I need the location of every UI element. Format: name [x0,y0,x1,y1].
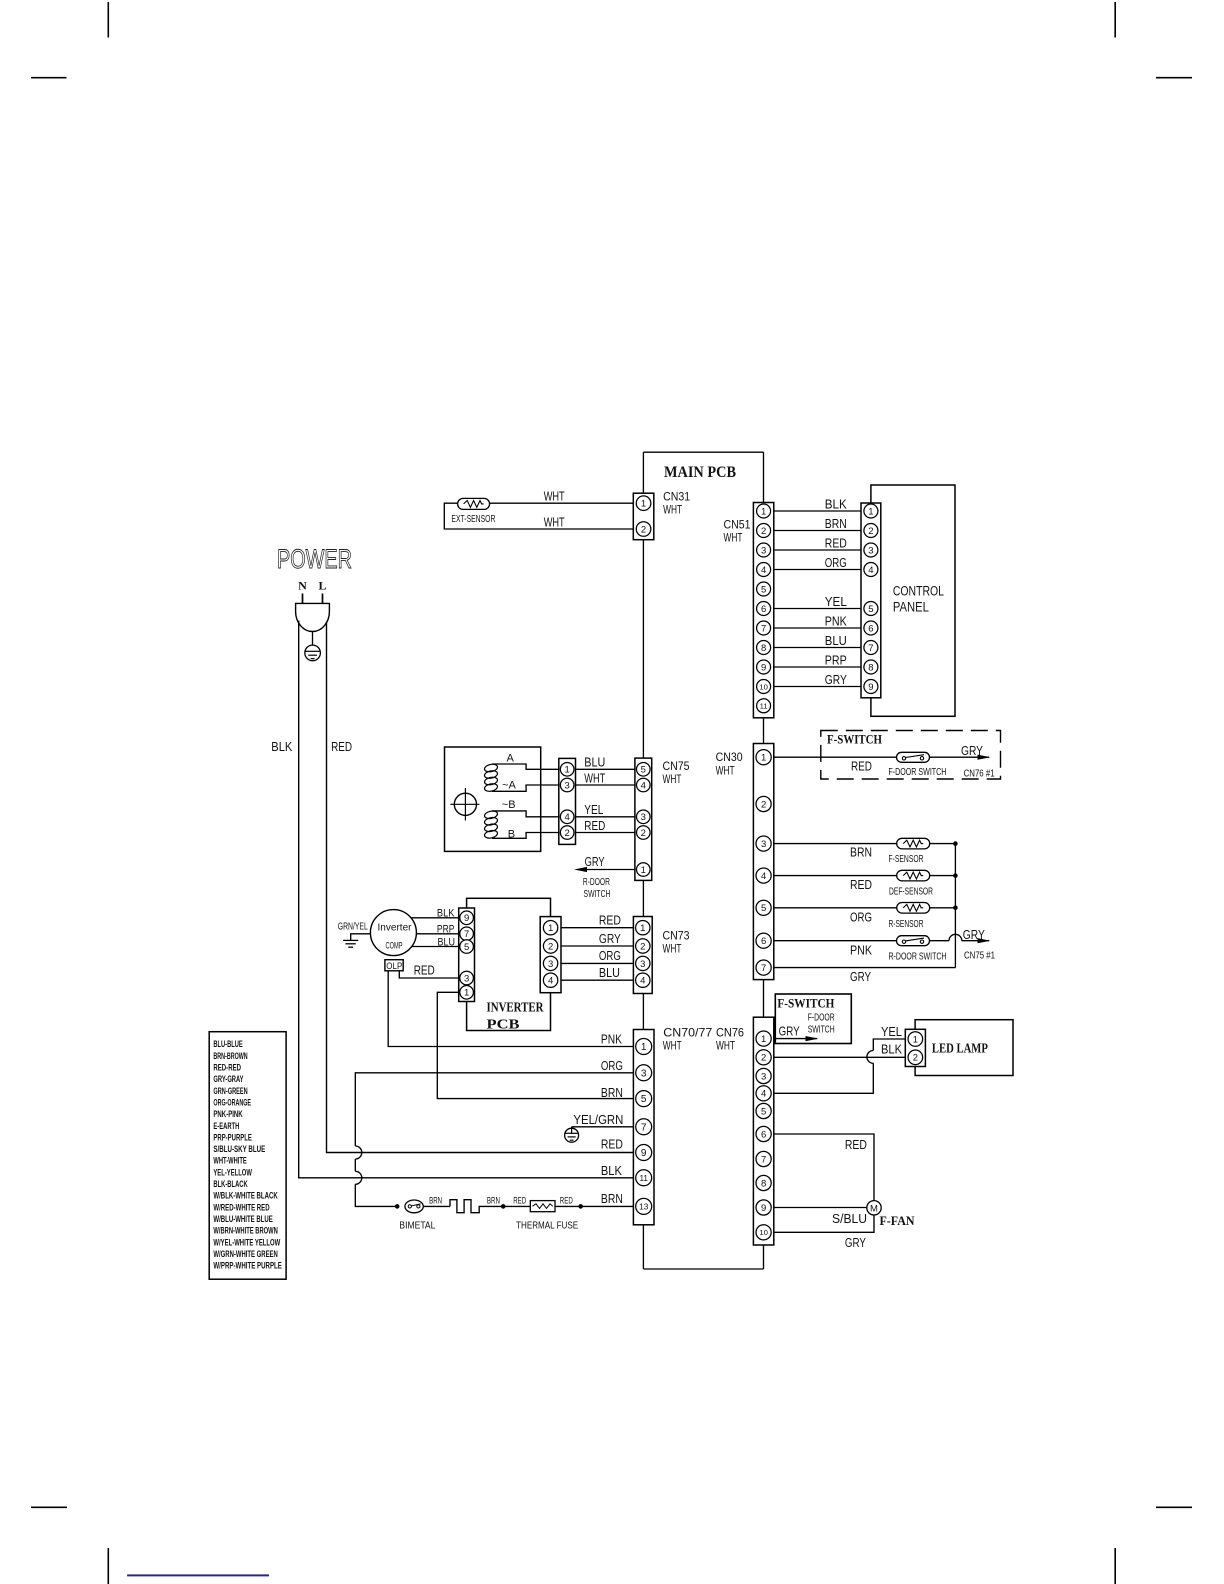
svg-text:R-SENSOR: R-SENSOR [889,919,924,930]
svg-text:2: 2 [641,524,646,535]
crop mark bottom-right vertical [1114,1548,1116,1584]
label POWER [277,544,352,574]
svg-text:RED: RED [845,1138,867,1152]
svg-text:RED: RED [560,1196,573,1207]
label CN75 WHT [663,772,682,786]
svg-text:PRP: PRP [825,654,847,668]
svg-text:ORG: ORG [601,1059,623,1073]
svg-text:F-DOOR SWITCH: F-DOOR SWITCH [888,767,946,778]
svg-text:THERMAL FUSE: THERMAL FUSE [516,1221,578,1232]
wire BLU compressor to inverter pin5 [412,946,459,948]
svg-text:YEL: YEL [825,595,847,609]
wire GRY CN76 pin10 to fan motor [774,1215,874,1233]
svg-text:7: 7 [641,1122,647,1133]
svg-text:BLK: BLK [437,908,455,920]
svg-text:1: 1 [761,753,766,764]
svg-text:BRN: BRN [429,1196,442,1207]
svg-text:F-SENSOR: F-SENSOR [889,854,924,865]
svg-text:GRN/YEL: GRN/YEL [338,922,368,933]
label EXT-SENSOR [451,513,495,525]
svg-text:PNK: PNK [825,615,848,629]
svg-text:11: 11 [639,1174,648,1183]
overload protector (square wave) [450,1200,503,1213]
wire YEL CN76 pin4 to LED pin1 (hop over BLK) [774,1039,906,1093]
svg-text:2: 2 [548,941,553,952]
resistor F-SENSOR [897,838,930,849]
svg-text:5: 5 [464,942,469,953]
power plug [296,594,330,632]
crop mark top-left vertical [107,2,109,38]
label RED [414,964,435,978]
svg-text:PNK: PNK [850,944,873,958]
svg-text:5: 5 [641,765,646,776]
label CN70/77 [663,1026,712,1040]
svg-text:5: 5 [641,1094,647,1105]
label BLU [599,966,620,980]
label RED [845,1138,867,1152]
svg-text:1: 1 [868,506,873,517]
svg-text:F-DOOR: F-DOOR [808,1012,835,1023]
svg-text:1: 1 [761,506,766,517]
label L (live pin) [318,579,326,593]
CONTROL PANEL box [871,485,955,716]
svg-text:3: 3 [565,780,570,791]
svg-text:~B: ~B [502,799,516,811]
svg-text:9: 9 [464,913,469,924]
svg-text:N: N [298,579,307,593]
MAIN PCB box right edge segments [763,452,765,1269]
svg-text:4: 4 [565,812,570,823]
label PRP [437,923,455,935]
label INVERTER PCB [487,1000,544,1032]
svg-text:OLP: OLP [386,961,402,971]
svg-text:W/YEL-WHITE YELLOW: W/YEL-WHITE YELLOW [213,1237,280,1247]
wire WHT ext-sensor top (to CN31 pin1) [490,502,634,504]
connector LED lamp (2-pin) [905,1029,925,1066]
svg-text:7: 7 [761,1154,766,1165]
svg-text:4: 4 [868,565,873,576]
INVERTER PCB box [467,898,551,1030]
wire S/BLU CN76 pin9 to fan motor [774,1207,867,1209]
svg-text:1: 1 [640,923,645,934]
wire RED inverter to CN73 pin1 [561,927,633,929]
label BLK [271,740,293,754]
label GRY [585,855,605,869]
svg-text:LED LAMP: LED LAMP [932,1041,988,1056]
wire coil B bottom to pin2 [492,833,559,839]
label CN31 WHT [663,503,682,517]
label R-DOOR SWITCH (two lines) [583,877,611,900]
label CN30 WHT [716,764,735,778]
svg-text:GRY: GRY [825,673,848,687]
wire RED OLP to inverter pin3 [399,971,458,978]
svg-text:A: A [507,753,515,765]
svg-text:3: 3 [641,1068,647,1079]
label BLU [438,936,456,948]
svg-text:E-EARTH: E-EARTH [213,1121,239,1131]
resistor EXT-SENSOR [458,498,490,509]
wire BLK power line (plug to CN70/77 pin11) [299,621,634,1178]
label RED [599,914,621,928]
svg-text:WHT: WHT [544,516,565,530]
svg-text:4: 4 [641,780,646,791]
wire color legend box [209,1032,286,1280]
label F-SWITCH [777,996,834,1011]
svg-text:WHT: WHT [663,772,682,786]
wire BRN to F-SENSOR (CN30 pin3) [774,843,956,845]
svg-text:GRY: GRY [963,928,986,942]
svg-text:1: 1 [641,1042,647,1053]
svg-text:BLU-BLUE: BLU-BLUE [213,1039,242,1049]
wire ORG inverter to CN73 pin3 [561,962,633,964]
crop mark bottom-right horizontal [1156,1506,1192,1508]
svg-text:YEL-YELLOW: YEL-YELLOW [213,1167,252,1177]
wire thermal fuse to CN70/77 pin13 [555,1205,633,1207]
svg-text:7: 7 [761,963,766,974]
fuse THERMAL FUSE [530,1201,555,1212]
F-SWITCH dashed box [821,731,1001,780]
svg-text:W/BRN-WHITE BROWN: W/BRN-WHITE BROWN [213,1226,277,1236]
svg-text:RED: RED [851,760,872,774]
wire color legend entries [213,1039,282,1270]
svg-text:2: 2 [761,799,766,810]
connector CN70/77 (odd pins 1-13, MAIN PCB left) [633,1030,654,1225]
wire PNK through R-DOOR SWITCH (CN30 pin6) with hop and GRY arrow [774,934,991,943]
svg-text:1: 1 [641,499,646,510]
svg-text:2: 2 [761,1053,766,1064]
svg-text:1: 1 [913,1034,918,1045]
junction node R-SENSOR bus [953,906,958,911]
svg-text:2: 2 [640,941,645,952]
MAIN PCB box top edge [643,451,763,453]
svg-text:4: 4 [761,565,766,576]
label S/BLU [832,1212,867,1226]
svg-text:1: 1 [464,988,469,999]
footer blue rule [127,1574,269,1576]
resistor R-SENSOR [897,903,930,914]
coil A winding [484,763,498,792]
svg-text:BLU: BLU [584,756,605,770]
svg-text:~A: ~A [502,780,516,792]
svg-text:WHT: WHT [716,764,735,778]
label BLK [437,908,455,920]
svg-text:7: 7 [464,929,469,940]
switch F-DOOR SWITCH [897,752,930,762]
svg-text:PRP: PRP [437,923,455,935]
label B [508,828,515,840]
svg-text:RED: RED [513,1196,526,1207]
wire ORG CN70/77 pin3 to bimetal chain (with hops over RED and BLK) [355,1073,633,1207]
svg-text:4: 4 [761,1089,766,1100]
svg-text:PRP-PURPLE: PRP-PURPLE [213,1132,252,1142]
wire WHT ext-sensor bottom (to CN31 pin2) [444,503,633,529]
label RED [513,1196,526,1207]
label GRY [961,744,984,758]
F-SWITCH solid box [775,994,851,1044]
connector inverter PCB right (pins 1-4) [540,917,561,993]
svg-text:5: 5 [761,903,766,914]
svg-text:3: 3 [868,545,873,556]
svg-text:6: 6 [868,623,873,634]
label LED LAMP [932,1041,988,1056]
svg-text:1: 1 [641,865,646,876]
svg-text:7: 7 [868,643,873,654]
wire WHT damper pin3 to CN75 pin4 [576,784,635,786]
svg-text:W/PRP-WHITE PURPLE: W/PRP-WHITE PURPLE [213,1261,282,1271]
svg-text:BRN-BROWN: BRN-BROWN [213,1051,247,1061]
svg-text:R-DOOR: R-DOOR [583,877,610,888]
svg-text:3: 3 [761,545,766,556]
label CN51 [724,518,751,532]
svg-text:W/RED-WHITE RED: W/RED-WHITE RED [213,1202,270,1212]
svg-text:CN75 #1: CN75 #1 [964,951,995,962]
connector damper 4-pin [559,758,576,844]
earth terminal (circle ground) [305,645,321,661]
svg-text:5: 5 [761,584,766,595]
svg-text:S/BLU: S/BLU [832,1212,867,1226]
svg-text:EXT-SENSOR: EXT-SENSOR [451,513,495,525]
svg-text:9: 9 [761,1203,766,1214]
svg-text:GRY: GRY [961,744,984,758]
wire RED CN76 pin6 to fan motor [774,1134,874,1201]
thermostat BIMETAL [405,1200,423,1213]
svg-text:MAIN PCB: MAIN PCB [664,464,736,481]
connector control panel (9-pin) [861,503,881,698]
svg-text:2: 2 [565,828,570,839]
wire BLU inverter to CN73 pin4 [561,979,633,981]
svg-text:7: 7 [761,623,766,634]
junction dot before pin13 [578,1204,583,1209]
label DEF-SENSOR [889,887,933,898]
label ~A [502,780,516,792]
wire to thermal fuse [503,1205,530,1207]
svg-text:SWITCH: SWITCH [808,1025,835,1036]
label CN76 #1 [964,769,995,780]
label CN76 WHT [716,1039,735,1053]
label WHT [584,771,605,785]
label YEL [881,1025,902,1039]
svg-text:2: 2 [641,828,646,839]
svg-text:BRN: BRN [601,1192,623,1206]
svg-text:6: 6 [761,936,766,947]
label RED [851,760,872,774]
crop mark top-left horizontal [31,77,67,79]
svg-text:RED: RED [825,537,847,551]
svg-text:F-FAN: F-FAN [880,1214,915,1228]
wire earth from compressor [351,934,371,941]
junction dot before bimetal [395,1204,400,1209]
svg-text:9: 9 [868,682,873,693]
svg-text:3: 3 [464,973,469,984]
label YEL/GRN [573,1113,623,1127]
label GRY [845,1236,867,1250]
svg-text:COMP: COMP [386,941,403,951]
label BRN [601,1192,623,1206]
label BIMETAL [399,1221,435,1232]
wire coil B top to pin4 [492,811,559,817]
svg-text:5: 5 [868,604,873,615]
wire GRY arrow from CN75 pin1 to R-DOOR SWITCH [574,867,635,872]
svg-text:Inverter: Inverter [378,923,413,934]
label CONTROL PANEL [893,584,944,615]
junction dot after overload [501,1204,506,1209]
svg-text:YEL: YEL [881,1025,902,1039]
svg-text:W/BLK-WHITE BLACK: W/BLK-WHITE BLACK [213,1191,278,1201]
svg-text:1: 1 [761,1034,766,1045]
svg-text:BRN: BRN [601,1086,623,1100]
wire YEL damper pin4 to CN75 pin3 [576,816,635,818]
svg-text:8: 8 [761,643,766,654]
motor F-FAN (M circle) [867,1201,881,1215]
svg-text:BLK: BLK [271,740,293,754]
junction node F-SENSOR bus [953,841,958,846]
wire BRN inverter pin1 to CN70/77 pin5 [437,992,633,1098]
svg-text:CN76 #1: CN76 #1 [964,769,995,780]
label WHT top [544,490,565,504]
wire RED power line (plug to CN70/77 pin9) [327,622,634,1153]
svg-text:WHT: WHT [724,531,743,545]
wire BLU damper pin1 to CN75 pin5 [576,768,635,770]
svg-text:RED: RED [599,914,621,928]
LED LAMP box [915,1020,1013,1076]
label GRN/YEL [338,922,368,933]
svg-text:RED: RED [414,964,435,978]
svg-text:ORG: ORG [599,949,621,963]
svg-text:BLK-BLACK: BLK-BLACK [213,1179,248,1189]
svg-text:INVERTER: INVERTER [487,1000,544,1015]
svg-text:6: 6 [761,1129,766,1140]
svg-text:CN70/77: CN70/77 [663,1026,712,1040]
label ORG [599,949,621,963]
svg-text:GRY: GRY [585,855,605,869]
svg-text:GRY-GRAY: GRY-GRAY [213,1074,243,1084]
crop mark bottom-left horizontal [31,1506,67,1508]
svg-text:10: 10 [759,1228,768,1237]
svg-text:9: 9 [641,1148,647,1159]
svg-text:3: 3 [761,1071,766,1082]
damper motor box [445,747,541,851]
svg-text:WHT: WHT [584,771,605,785]
MAIN PCB box bottom edge [643,1268,763,1270]
label N (neutral pin) [298,579,307,593]
svg-text:GRY: GRY [599,932,622,946]
svg-text:BLK: BLK [881,1043,903,1057]
label ORG [850,911,872,925]
label CN75 [663,759,690,773]
svg-text:CN30: CN30 [716,750,743,764]
svg-text:BLU: BLU [825,634,847,648]
label YEL [584,803,603,817]
connector CN73 (4-pin, MAIN PCB left) [633,917,652,994]
wire coil A top to pin1 [492,764,559,769]
svg-text:3: 3 [640,959,645,970]
svg-text:WHT: WHT [663,503,682,517]
connector CN75 (5-pin, MAIN PCB left) [635,758,652,880]
wire RED to DEF-SENSOR (CN30 pin4) [774,875,956,877]
label BRN [487,1196,500,1207]
svg-text:ORG-ORANGE: ORG-ORANGE [213,1097,251,1107]
compressor Inverter COMP (circle) [370,910,416,956]
svg-text:RED-RED: RED-RED [213,1063,241,1073]
label PNK [850,944,873,958]
resistor DEF-SENSOR [897,870,930,881]
protector OLP box [385,960,403,971]
wire RED damper pin2 to CN75 pin2 [576,832,635,834]
connector CN51 (11-pin, MAIN PCB right) [753,503,773,718]
svg-text:L: L [318,579,326,593]
label MAIN PCB [664,464,736,481]
label CN76 [716,1026,744,1040]
label CN75 #1 [964,951,995,962]
svg-text:BRN: BRN [487,1196,500,1207]
svg-text:9: 9 [761,662,766,673]
svg-text:PANEL: PANEL [893,599,929,614]
svg-text:R-DOOR SWITCH: R-DOOR SWITCH [889,952,947,963]
wire YEL/GRN CN70/77 pin7 to earth [572,1126,634,1128]
svg-text:4: 4 [548,976,553,987]
svg-text:CN76: CN76 [716,1026,744,1040]
svg-text:BIMETAL: BIMETAL [399,1221,435,1232]
svg-text:CN51: CN51 [724,518,751,532]
MAIN PCB box left edge segments [642,452,644,1269]
label CN73 WHT [663,942,682,956]
label CN31 [663,490,690,504]
motor symbol (circle with cross) [450,788,479,820]
crop mark top-right horizontal [1156,77,1192,79]
svg-text:F-SWITCH: F-SWITCH [827,733,882,747]
svg-text:3: 3 [548,959,553,970]
svg-text:PNK: PNK [601,1033,623,1047]
label A [507,753,515,765]
wires CN51 to control panel (BLK BRN RED ORG YEL PNK BLU PRP GRY) [774,511,861,687]
svg-text:POWER: POWER [277,544,352,574]
wire RED/GRY through F-door switch (CN30 pin1) [774,755,991,760]
svg-text:ORG: ORG [850,911,872,925]
svg-text:BLK: BLK [601,1164,623,1178]
label GRY [779,1025,801,1039]
svg-text:BRN: BRN [825,517,847,531]
svg-text:RED: RED [331,740,352,754]
label BLK [601,1164,623,1178]
svg-text:GRY: GRY [779,1025,801,1039]
svg-text:3: 3 [641,812,646,823]
svg-text:DEF-SENSOR: DEF-SENSOR [889,887,933,898]
svg-text:PCB: PCB [487,1017,520,1032]
coil B winding [484,810,498,839]
label F-DOOR SWITCH [888,767,946,778]
svg-text:GRN-GREEN: GRN-GREEN [213,1086,247,1096]
label GRY [850,970,872,984]
labels CN51-CP wire colors [825,498,848,688]
svg-text:GRY: GRY [845,1236,867,1250]
label F-SWITCH [827,733,882,747]
svg-text:1: 1 [548,923,553,934]
svg-text:PNK-PINK: PNK-PINK [213,1109,243,1119]
wire BLK CN76 pin2 to LED pin2 [774,1056,906,1058]
svg-text:WHT: WHT [544,490,565,504]
svg-text:M: M [870,1203,878,1214]
svg-text:WHT-WHITE: WHT-WHITE [213,1156,246,1166]
label BRN [429,1196,442,1207]
label GRY [963,928,986,942]
svg-text:WHT: WHT [716,1039,735,1053]
svg-text:4: 4 [640,976,645,987]
label ~B [502,799,516,811]
label RED [331,740,352,754]
svg-text:W/BLU-WHITE BLUE: W/BLU-WHITE BLUE [213,1214,272,1224]
svg-text:RED: RED [584,819,605,833]
wire GRY arrow CN76 pin1 to F-door switch [774,1036,819,1041]
